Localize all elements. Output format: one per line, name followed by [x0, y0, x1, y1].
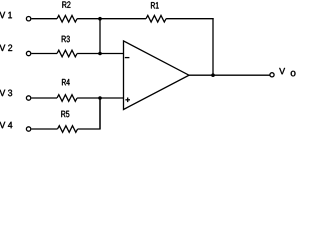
resistor R1	[146, 15, 166, 22]
wire node A vertical x=100 rows 1-2	[99, 19, 101, 54]
wire R1 to corner	[166, 18, 214, 20]
label Vo V	[279, 68, 285, 74]
terminal V2	[26, 51, 30, 55]
wire V2 to R3	[31, 53, 57, 55]
label R2	[62, 1, 70, 7]
wire feedback vertical	[212, 18, 214, 75]
wire node B vertical x=100 rows 3-4	[99, 98, 101, 129]
junction node R3 inverting input	[98, 52, 102, 56]
wire R5 to corner up to node B	[78, 98, 100, 129]
label R3	[62, 36, 70, 43]
wire R4 to op-amp non-inverting input	[77, 97, 123, 99]
resistor R5	[58, 126, 78, 133]
op-amp U1	[124, 41, 190, 110]
label R1	[151, 2, 159, 8]
wire V1 to R2	[31, 18, 57, 20]
wire V3 to R4	[31, 97, 57, 99]
wire op-amp output to Vo	[189, 74, 270, 76]
wire V4 to R5	[31, 128, 57, 130]
op-amp minus sign	[125, 57, 130, 59]
label R5	[61, 111, 69, 117]
resistor R3	[57, 50, 77, 57]
wire R2 to R1 (top net)	[77, 18, 146, 20]
label V4	[0, 122, 12, 128]
label V2	[0, 45, 12, 51]
label V3	[0, 90, 12, 97]
terminal Vo	[270, 73, 274, 77]
junction node R4 non-inverting input	[98, 96, 102, 100]
label Vo o	[291, 71, 296, 76]
resistor R2	[57, 15, 77, 22]
wire R3 to op-amp inverting input	[77, 53, 123, 55]
label R4	[62, 79, 70, 85]
op-amp plus sign	[125, 99, 130, 101]
resistor R4	[57, 95, 77, 102]
terminal V3	[26, 96, 30, 100]
junction node R2/R1	[98, 17, 102, 21]
terminal V4	[26, 127, 30, 131]
junction node output feedback	[211, 73, 215, 77]
label V1	[0, 12, 12, 18]
terminal V1	[26, 17, 30, 21]
